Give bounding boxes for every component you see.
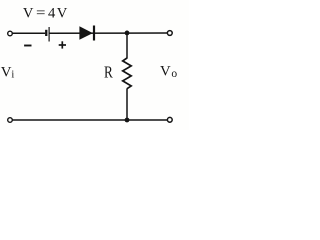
svg-text:V: V <box>23 5 34 21</box>
svg-text:4: 4 <box>48 5 56 21</box>
svg-text:i: i <box>11 69 14 80</box>
svg-text:V: V <box>57 5 68 21</box>
svg-text:=: = <box>36 5 46 21</box>
svg-text:V: V <box>160 63 171 79</box>
svg-text:R: R <box>104 63 114 82</box>
svg-text:o: o <box>171 68 177 80</box>
svg-text:V: V <box>1 64 12 80</box>
